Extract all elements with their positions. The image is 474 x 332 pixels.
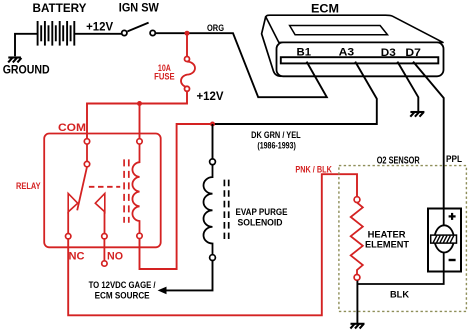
ORG wire to ECM pin B1	[187, 33, 327, 97]
svg-text:(1986-1993): (1986-1993)	[257, 139, 296, 150]
wire ECM D7 (PPL) to O2 sensor	[413, 62, 444, 209]
switch contact circle left	[122, 30, 127, 35]
relay NO terminal	[102, 234, 107, 239]
O2 sensor dashed box	[339, 166, 467, 312]
svg-text:HEATER: HEATER	[368, 228, 406, 239]
svg-text:FUSE: FUSE	[154, 71, 175, 82]
wire ECM D3 to ground	[397, 62, 418, 112]
minus sign	[449, 259, 456, 261]
svg-text:PPL: PPL	[446, 154, 462, 165]
svg-text:+12V: +12V	[86, 22, 113, 34]
relay pole circle	[84, 161, 89, 166]
svg-text:COM: COM	[58, 122, 86, 134]
ground (D3)	[410, 112, 424, 117]
linkage dashed line	[89, 186, 120, 188]
wire NC to PNK/BLK heater	[68, 174, 357, 315]
svg-text:BATTERY: BATTERY	[33, 3, 87, 15]
svg-text:RELAY: RELAY	[16, 180, 41, 191]
red junction dot (ign sw / fuse)	[185, 31, 190, 36]
wire battery to switch	[74, 33, 122, 35]
wire junction to solenoid	[212, 124, 214, 159]
svg-text:IGN SW: IGN SW	[119, 3, 159, 15]
svg-text:ECM SOURCE: ECM SOURCE	[95, 290, 150, 301]
ECM box top face	[266, 15, 443, 42]
sensor hatched bar	[431, 235, 457, 243]
battery B1 cells	[38, 21, 75, 46]
O2 sensor body box	[428, 209, 461, 272]
ECM top inner panel	[290, 26, 388, 35]
wire switch to junction	[155, 32, 187, 34]
ECM connector slot	[281, 57, 439, 63]
sensor ellipse	[435, 225, 454, 252]
switch contact circle right	[150, 30, 155, 35]
ECM left side sliver	[262, 16, 282, 76]
arrowhead	[158, 287, 167, 295]
relay NC terminal	[66, 234, 71, 239]
relay blade	[77, 167, 87, 211]
solenoid core dashed lines	[223, 180, 225, 239]
svg-text:ELEMENT: ELEMENT	[365, 239, 409, 250]
relay K1 box	[44, 134, 161, 248]
svg-text:O2 SENSOR: O2 SENSOR	[377, 155, 420, 166]
wire heater to ground	[356, 281, 358, 324]
svg-text:GROUND: GROUND	[3, 65, 50, 77]
svg-text:EVAP PURGE: EVAP PURGE	[236, 206, 288, 217]
svg-text:NC: NC	[69, 251, 85, 263]
relay NO contact triangle	[95, 194, 105, 212]
relay core dashed lines	[123, 159, 125, 222]
svg-text:BLK: BLK	[390, 288, 409, 299]
svg-text:SOLENOID: SOLENOID	[238, 217, 283, 228]
ECM front face	[277, 42, 444, 76]
svg-text:+12V: +12V	[197, 89, 225, 103]
wire battery to ground	[15, 34, 38, 56]
NO open circle	[102, 261, 107, 266]
heater top terminal	[354, 197, 360, 203]
svg-text:PNK / BLK: PNK / BLK	[295, 163, 332, 174]
ground (O2 sensor)	[350, 324, 364, 329]
sensor wire top	[443, 209, 445, 226]
solenoid top terminal	[210, 159, 216, 165]
plus sign	[449, 213, 456, 220]
wire relay coil bottom to DK GRN junction	[140, 124, 211, 269]
svg-text:TO 12VDC GAGE /: TO 12VDC GAGE /	[89, 279, 156, 290]
wire fuse to relay COM and coil	[87, 91, 187, 138]
svg-text:ECM: ECM	[311, 1, 339, 15]
relay coil	[132, 144, 139, 233]
relay NC contact triangle	[68, 194, 78, 212]
relay coil top terminal	[137, 139, 142, 144]
sensor wire bottom to BLK	[357, 252, 443, 284]
solenoid bottom terminal	[210, 255, 216, 261]
wire solenoid to 12VDC source arrow	[165, 261, 213, 291]
fuse F1 10A	[181, 57, 195, 92]
evap purge solenoid coil	[203, 165, 212, 255]
heater bottom terminal	[354, 275, 360, 281]
red junction dot (coil to ECM A3 wire)	[210, 122, 215, 127]
wire COM to pole	[86, 144, 88, 161]
wire ECM A3 (DK GRN / YEL)	[213, 62, 377, 124]
NO open terminal wire	[103, 239, 105, 261]
wire junction to relay coil	[139, 104, 141, 139]
heater element resistor	[351, 203, 363, 275]
NC wire stubs	[67, 212, 69, 234]
relay coil bottom terminal	[137, 233, 142, 238]
switch blade	[128, 23, 149, 32]
svg-text:NO: NO	[107, 251, 123, 263]
red junction dot (coil feed)	[137, 101, 142, 106]
wire to fuse	[186, 33, 188, 56]
ground (battery)	[8, 58, 21, 63]
relay COM terminal	[84, 139, 89, 144]
